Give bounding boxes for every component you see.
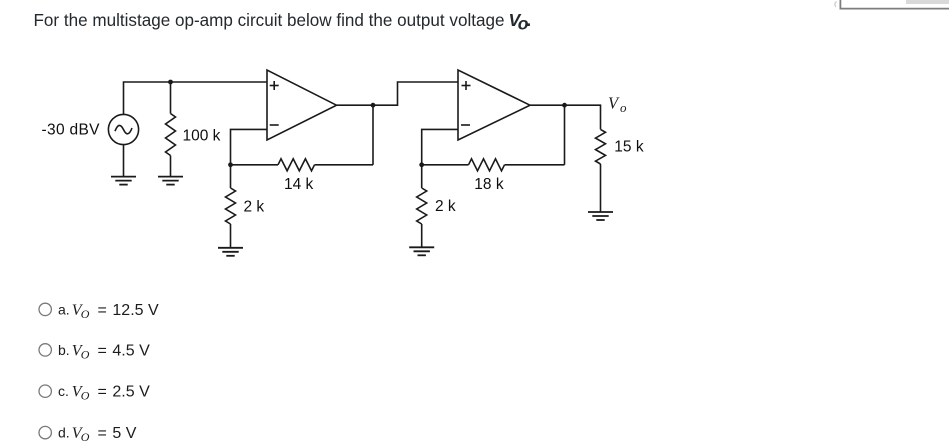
svg-text:=: = bbox=[98, 302, 107, 319]
svg-text:14 k: 14 k bbox=[284, 176, 314, 193]
wire: 100k bottom lead to ground bbox=[170, 156, 172, 177]
junction: 100k tap on input wire bbox=[168, 80, 173, 85]
resistor 2 k (stage 1) bbox=[226, 188, 236, 224]
junction: U2 output node bbox=[562, 103, 567, 108]
svg-text:O: O bbox=[81, 389, 90, 403]
wire: node A to 14k left lead bbox=[231, 164, 279, 166]
ground (2k stage 2) bbox=[409, 247, 434, 255]
wire: 100k top lead bbox=[170, 82, 172, 114]
svg-text:12.5 V: 12.5 V bbox=[112, 302, 159, 319]
option d radio button bbox=[39, 426, 51, 438]
resistor 18 k bbox=[469, 159, 505, 171]
wire: U2 output to Vo node bbox=[530, 105, 601, 129]
U2 minus input mark bbox=[461, 124, 470, 126]
svg-text:2.5 V: 2.5 V bbox=[112, 384, 150, 401]
junction: node A (stage1 feedback) bbox=[228, 162, 233, 167]
svg-text:2 k: 2 k bbox=[244, 199, 265, 216]
resistor 2 k (stage 1) top lead bbox=[230, 165, 232, 188]
panel fragment left border (top right corner) bbox=[839, 0, 841, 9]
source V1 (-30 dBV sine source) bbox=[108, 114, 138, 144]
op-amp U2 bbox=[458, 70, 530, 140]
wire: U1 inverting input to feedback node A bbox=[231, 129, 268, 164]
option c radio button bbox=[39, 385, 51, 397]
wire: feedback vertical up to U1 output node bbox=[372, 105, 374, 165]
svg-text:100 k: 100 k bbox=[183, 128, 221, 145]
resistor 14 k bbox=[278, 159, 315, 171]
resistor 2 k (stage 2) bbox=[417, 188, 427, 224]
svg-text:-30 dBV: -30 dBV bbox=[42, 122, 101, 139]
svg-text:2 k: 2 k bbox=[435, 198, 456, 215]
svg-text:=: = bbox=[98, 384, 107, 401]
wire: 15k bottom lead to ground bbox=[600, 164, 602, 212]
svg-text:.: . bbox=[526, 10, 531, 30]
wire: node B to 18k left lead bbox=[422, 164, 469, 166]
wire: 2k (stage 1) bottom lead to ground bbox=[230, 224, 232, 248]
panel fragment gray scrollbar piece bbox=[906, 0, 949, 4]
ground (2k stage 1) bbox=[218, 248, 243, 256]
panel fragment bottom border bbox=[840, 8, 949, 10]
svg-text:O: O bbox=[81, 307, 90, 321]
svg-text:O: O bbox=[81, 347, 90, 361]
svg-text:18 k: 18 k bbox=[474, 176, 504, 193]
wire: 2k (stage 2) bottom lead to ground bbox=[421, 224, 423, 247]
svg-text:=: = bbox=[98, 342, 107, 359]
svg-text:4.5 V: 4.5 V bbox=[112, 342, 150, 359]
junction: U1 output node bbox=[371, 103, 376, 108]
U1 plus input mark bbox=[270, 81, 279, 90]
wire: U2 inverting input to feedback node B bbox=[422, 129, 458, 164]
wire: source bottom to ground bbox=[123, 145, 125, 177]
svg-text:5 V: 5 V bbox=[112, 425, 136, 442]
svg-text:c.: c. bbox=[58, 383, 69, 399]
U2 plus input mark bbox=[462, 81, 471, 90]
wire: 18k right lead to below U2 output bbox=[505, 164, 565, 166]
ground (source) bbox=[111, 177, 136, 185]
option a radio button bbox=[39, 303, 51, 315]
svg-text:15 k: 15 k bbox=[614, 139, 644, 156]
svg-text:o: o bbox=[620, 100, 627, 115]
resistor 2 k (stage 2) top lead bbox=[421, 165, 423, 188]
junction: node B (stage2 feedback) bbox=[419, 162, 424, 167]
op-amp U1 bbox=[267, 70, 337, 140]
ground (15k) bbox=[588, 212, 613, 220]
svg-text:O: O bbox=[81, 430, 90, 444]
wire: U1 output across and up to U2 + input bbox=[337, 82, 459, 105]
U1 minus input mark bbox=[270, 124, 279, 126]
option b radio button bbox=[39, 344, 51, 356]
svg-text:=: = bbox=[98, 425, 107, 442]
ground (100k) bbox=[158, 177, 183, 185]
wire: source top to + input of U1 bbox=[124, 82, 268, 115]
svg-text:d.: d. bbox=[58, 425, 70, 441]
svg-text:b.: b. bbox=[58, 342, 70, 358]
resistor 15 k bbox=[596, 129, 606, 164]
svg-text:a.: a. bbox=[58, 301, 70, 317]
svg-text:For the multistage op-amp circ: For the multistage op-amp circuit below … bbox=[34, 10, 505, 30]
resistor 100 k bbox=[166, 114, 176, 156]
panel faint glyph fragment bbox=[835, 2, 837, 8]
wire: feedback vertical up to U2 output node bbox=[564, 105, 566, 165]
wire: 14k right lead to below U1 output bbox=[315, 164, 374, 166]
